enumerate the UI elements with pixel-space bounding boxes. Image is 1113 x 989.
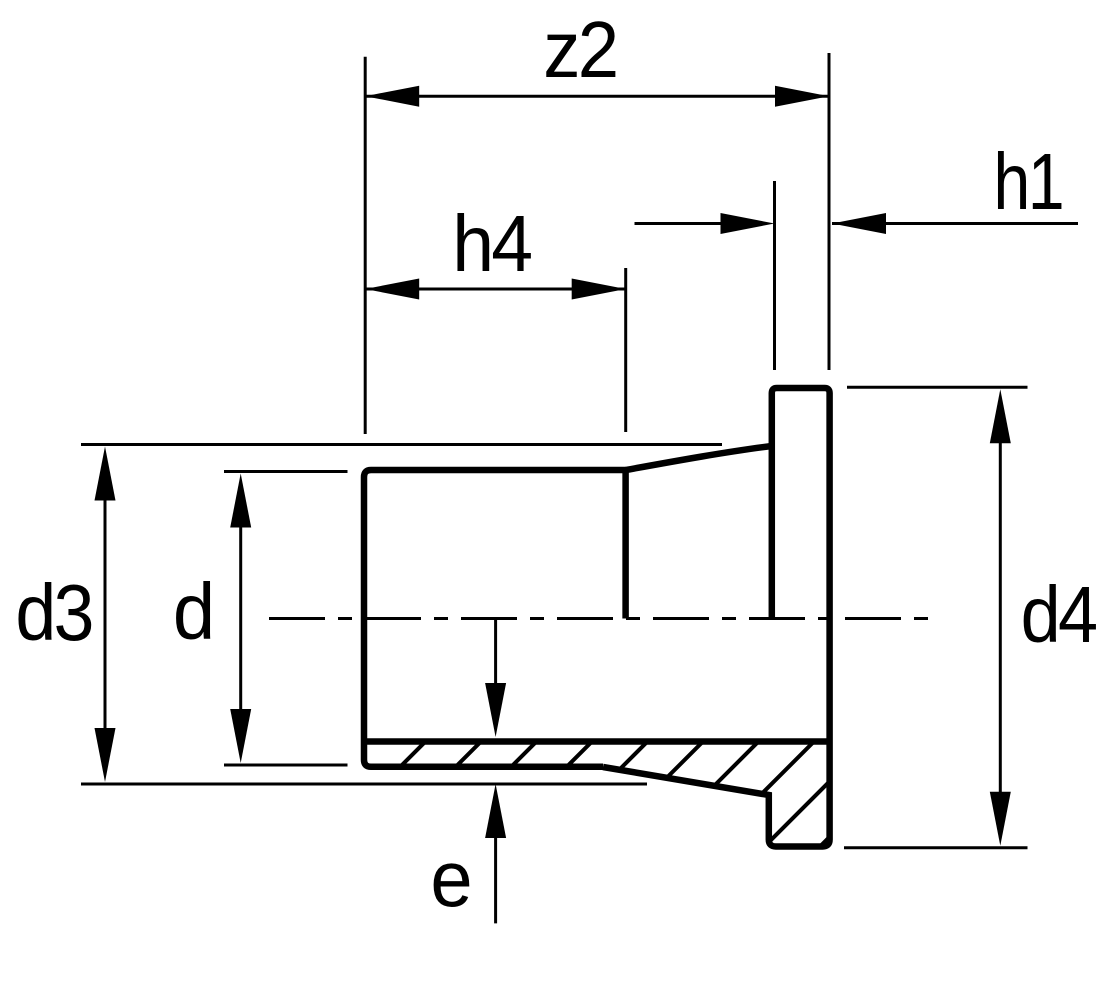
cone (taper) outer line xyxy=(626,446,772,470)
d3 bottom arrowhead xyxy=(95,728,116,782)
z2 dimension line xyxy=(365,95,829,98)
z2 left extension line xyxy=(364,57,367,434)
d3 bottom extension line xyxy=(81,783,647,786)
svg-text:d4: d4 xyxy=(1021,571,1097,660)
h1 dimension line right part xyxy=(832,222,1078,225)
e upper leader line (from centerline down) xyxy=(494,619,497,691)
h4 right arrowhead xyxy=(572,279,626,300)
d3 top extension line xyxy=(81,443,722,446)
flange outline xyxy=(603,388,830,847)
svg-text:d3: d3 xyxy=(15,568,91,658)
e lower arrowhead (pointing up) xyxy=(485,784,506,838)
e lower leader line xyxy=(494,838,497,923)
d dimension line xyxy=(239,495,242,740)
h1 left extension line xyxy=(773,181,776,370)
d top extension line xyxy=(224,470,348,473)
svg-text:h4: h4 xyxy=(452,200,531,289)
joint line pipe/cone xyxy=(622,468,629,619)
d4 top extension line xyxy=(847,386,1028,389)
z2 right arrowhead xyxy=(775,86,829,107)
d bottom arrowhead xyxy=(230,709,251,763)
d top arrowhead xyxy=(230,474,251,528)
svg-text:d: d xyxy=(173,566,215,656)
section hatching xyxy=(240,607,1059,927)
d bottom extension line xyxy=(224,764,348,767)
svg-text:z2: z2 xyxy=(543,6,616,95)
e upper arrowhead (pointing down) xyxy=(485,683,506,737)
h1 right arrowhead (pointing left) xyxy=(832,213,886,234)
h4 left arrowhead xyxy=(365,279,419,300)
d4 bottom arrowhead xyxy=(990,792,1011,846)
d4 dimension line xyxy=(999,410,1002,825)
h4 right extension line xyxy=(624,268,627,432)
h4 dimension line xyxy=(365,288,626,291)
bore line (inner diameter, section) xyxy=(364,738,830,745)
d4 bottom extension line xyxy=(844,846,1028,849)
svg-text:h1: h1 xyxy=(993,136,1062,226)
d3 dimension line xyxy=(104,470,107,760)
svg-text:e: e xyxy=(430,833,472,923)
z2 left arrowhead xyxy=(365,86,419,107)
centerline (dash-dot axis) xyxy=(269,617,930,620)
h1 dimension line left part xyxy=(635,222,724,225)
h1 left arrowhead (pointing right) xyxy=(721,213,775,234)
d4 top arrowhead xyxy=(990,389,1011,443)
d3 top arrowhead xyxy=(95,447,116,501)
pipe outline (left face + outer diameter, top and bottom) xyxy=(364,470,626,767)
z2 right extension line xyxy=(828,53,831,370)
